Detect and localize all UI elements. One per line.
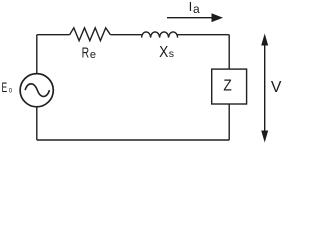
wire top-left horizontal: [37, 34, 70, 36]
wire right vertical to load: [228, 35, 230, 69]
svg-text:E: E: [2, 79, 8, 95]
resistor Re: [70, 28, 111, 41]
current arrow Ia: [167, 13, 223, 22]
voltage arrow V (double-headed): [261, 34, 268, 143]
wire bottom-left vertical: [36, 107, 38, 140]
svg-text:X: X: [159, 44, 168, 61]
svg-text:s: s: [169, 48, 174, 60]
svg-text:e: e: [90, 49, 96, 61]
svg-text:V: V: [271, 79, 282, 96]
svg-text:a: a: [193, 2, 200, 16]
svg-text:R: R: [82, 46, 90, 62]
wire top-left vertical: [36, 35, 38, 74]
inductor Xs: [142, 32, 178, 38]
wire inductor to top-right corner: [177, 34, 229, 36]
wire between resistor and inductor: [110, 34, 142, 36]
wire bottom horizontal: [37, 139, 229, 141]
wire load to bottom: [228, 104, 230, 140]
svg-text:o: o: [9, 86, 12, 95]
source sine wave: [25, 84, 49, 97]
load box Z: [212, 69, 247, 104]
svg-text:I: I: [189, 0, 193, 14]
svg-text:Z: Z: [223, 77, 232, 94]
source Eo circle: [20, 74, 53, 107]
